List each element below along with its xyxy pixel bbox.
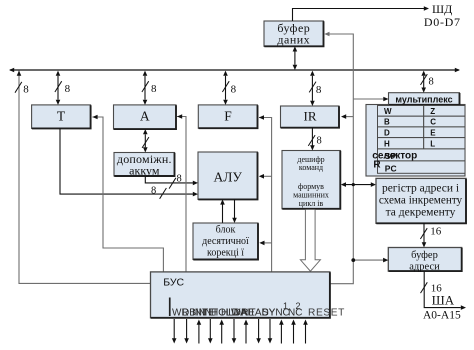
slash 8 aux-ALU — [169, 178, 176, 189]
svg-text:D: D — [384, 128, 390, 137]
program counter PC row — [378, 161, 466, 173]
svg-text:8: 8 — [23, 84, 29, 96]
block arrow decoder to control unit — [300, 210, 320, 271]
svg-text:АЛУ: АЛУ — [213, 170, 242, 185]
address register and inc/dec scheme (регістр адреси і схема інкременту та декременту) — [376, 178, 466, 223]
wire data buffer right to control unit — [329, 34, 353, 284]
svg-text:IR: IR — [304, 109, 317, 124]
control wire to A — [177, 117, 186, 272]
svg-text:D0-D7: D0-D7 — [424, 15, 461, 29]
junction dot addr-buffer branch — [351, 258, 355, 262]
svg-text:Z: Z — [430, 107, 435, 116]
bus link T — [57, 76, 59, 100]
svg-text:адреси: адреси — [409, 261, 440, 272]
slash 8 F — [222, 81, 229, 92]
svg-text:регістр адреси і: регістр адреси і — [382, 183, 459, 195]
svg-text:PC: PC — [385, 164, 397, 174]
svg-text:команд: команд — [299, 163, 323, 172]
register A — [114, 105, 177, 129]
svg-text:W: W — [384, 107, 392, 116]
wire ALU to correction — [234, 200, 236, 219]
slash 16 addr — [420, 228, 427, 239]
control unit (БУС) — [151, 272, 330, 318]
svg-text:2: 2 — [296, 301, 301, 311]
svg-text:8: 8 — [231, 84, 237, 96]
svg-text:БУС: БУС — [163, 277, 184, 289]
register F — [198, 105, 257, 128]
phi bar glyph — [169, 298, 171, 317]
branch to address buffer — [353, 259, 383, 261]
op-unit ALU (АЛУ) — [198, 152, 258, 199]
slash 8 IR — [309, 82, 316, 93]
bidirectional link decoder-address register — [346, 184, 372, 186]
slash 8 T — [55, 81, 62, 92]
slash 16 SA — [421, 282, 428, 293]
branch to IR — [346, 116, 354, 118]
svg-text:8: 8 — [151, 83, 157, 95]
link address register to address buffer — [423, 223, 425, 242]
instruction decoder (дешифр команд / формув машинних циклів) — [282, 151, 340, 209]
svg-text:8: 8 — [177, 173, 182, 184]
svg-text:F: F — [224, 109, 232, 124]
svg-text:аккум: аккум — [129, 164, 160, 178]
bus link multiplexer — [423, 76, 425, 89]
bus link data buffer — [294, 52, 296, 65]
slash 8 left tap — [15, 82, 22, 93]
svg-text:8: 8 — [151, 185, 156, 196]
svg-text:B: B — [384, 118, 390, 127]
decimal correction block (блок десятичної корекції) — [193, 223, 258, 260]
wire data buffer to SD pin — [293, 9, 425, 22]
auxiliary accumulator (допоміжн. акум) — [114, 153, 175, 177]
address buffer (буфер адреси) — [388, 248, 461, 272]
svg-text:H: H — [384, 140, 390, 149]
slash 8 IR-decoder — [308, 135, 315, 146]
svg-text:цикл ів: цикл ів — [299, 199, 324, 208]
svg-text:корекці ї: корекці ї — [207, 248, 244, 259]
bus link A — [144, 76, 146, 100]
slash 8 A — [142, 81, 149, 92]
svg-text:8: 8 — [429, 77, 434, 88]
bus link F — [225, 76, 227, 100]
junction dot bidir crossing — [352, 183, 355, 186]
wire T to ALU — [60, 128, 193, 194]
instruction register IR — [281, 106, 340, 128]
stack pointer SP row — [378, 149, 466, 161]
wire bus to control-unit left — [19, 71, 150, 284]
bus link IR — [311, 76, 313, 101]
svg-text:А: А — [140, 109, 150, 124]
svg-text:16: 16 — [430, 226, 442, 238]
svg-text:RESET: RESET — [308, 308, 345, 319]
bus tap arrow up left — [17, 71, 22, 76]
control wire to F / ALU / correction — [259, 118, 272, 272]
control wire to T — [92, 117, 163, 272]
svg-text:схема інкременту: схема інкременту — [379, 195, 463, 207]
svg-text:C: C — [430, 118, 436, 127]
svg-text:E: E — [430, 128, 436, 137]
wire to multiplexer select — [353, 98, 383, 100]
svg-text:8: 8 — [317, 136, 322, 147]
wire correction to ALU — [222, 204, 224, 223]
link IR to decoder — [311, 128, 313, 146]
svg-text:десятичної: десятичної — [202, 236, 249, 247]
svg-text:та декременту: та декременту — [386, 207, 456, 219]
link A to aux accumulator — [144, 134, 146, 147]
wire address buffer to SA pin — [424, 271, 461, 307]
slash 8 multiplexer — [421, 74, 428, 85]
branch to ALU — [263, 175, 272, 177]
control unit pin arrows — [173, 319, 175, 339]
wire aux accumulator to ALU — [145, 176, 193, 183]
multiplexer (мультиплекс) — [389, 93, 460, 105]
svg-text:1: 1 — [283, 301, 288, 311]
svg-text:мультиплекс: мультиплекс — [395, 94, 452, 104]
svg-text:8: 8 — [316, 84, 322, 96]
register selector frame (селектор регістрів) — [366, 105, 465, 177]
svg-text:L: L — [430, 140, 435, 149]
data buffer (буфер даних) — [264, 21, 324, 46]
svg-text:R: R — [373, 160, 381, 171]
svg-text:даних: даних — [277, 33, 310, 47]
svg-text:8: 8 — [65, 83, 71, 95]
internal data bus — [10, 69, 459, 71]
svg-text:ША: ША — [432, 292, 455, 307]
branch to correction block — [264, 242, 272, 244]
svg-text:буфер: буфер — [411, 250, 438, 261]
register pairs W/Z B/C D/E H/L — [378, 106, 424, 117]
svg-text:блок: блок — [216, 224, 236, 235]
svg-text:Т: Т — [57, 109, 66, 124]
svg-text:A0-A15: A0-A15 — [423, 309, 461, 321]
slash A-aux link — [142, 137, 149, 148]
register T — [32, 105, 91, 128]
slash 8 T-ALU — [160, 188, 167, 199]
